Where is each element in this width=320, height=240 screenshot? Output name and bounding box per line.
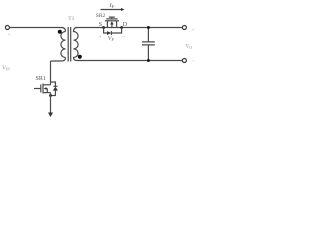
svg-text:S: S	[99, 22, 102, 28]
wire secondary bottom rail	[77, 60, 182, 62]
svg-text:SR2: SR2	[96, 13, 106, 19]
svg-text:VIN: VIN	[2, 66, 10, 72]
current arrow IF shaft	[101, 9, 122, 11]
svg-text:+: +	[192, 28, 195, 34]
MOSFET SR2 gate plate	[106, 18, 117, 20]
MOSFET SR1 body diode	[51, 82, 58, 96]
svg-text:T1: T1	[68, 16, 74, 22]
wire SR1 drain vertical	[50, 61, 52, 85]
svg-text:D: D	[123, 22, 128, 28]
svg-text:VO: VO	[186, 44, 193, 50]
MOSFET SR2 source stub	[106, 21, 108, 28]
MOSFET SR2 channel bar	[105, 20, 119, 22]
svg-text:IF: IF	[109, 2, 115, 9]
transformer T1 primary winding	[61, 32, 66, 58]
svg-text:VF: VF	[108, 36, 115, 42]
MOSFET SR2 body arrow	[111, 24, 113, 28]
output terminal Vo+	[182, 26, 186, 30]
MOSFET SR1 gate lead	[34, 88, 41, 90]
diode triangle SR2	[107, 31, 111, 35]
node cap bottom	[147, 59, 150, 62]
current arrow IF head	[121, 8, 124, 11]
transformer primary polarity dot	[58, 30, 62, 34]
wire SR1 source to ground	[50, 93, 52, 113]
MOSFET SR2 gate T-bar	[109, 16, 115, 18]
node SR2 drain D	[120, 26, 123, 29]
MOSFET SR1 body arrow	[45, 89, 47, 93]
MOSFET SR2 drain stub	[116, 21, 118, 28]
MOSFET SR1 gate plate	[40, 85, 42, 93]
svg-text:+: +	[8, 32, 11, 38]
MOSFET SR2 gate lead	[111, 17, 113, 19]
transformer secondary polarity dot	[78, 55, 82, 59]
transformer core lines	[68, 27, 71, 62]
wire input to transformer primary top	[9, 28, 65, 32]
MOSFET SR1 channel bar	[42, 84, 44, 94]
svg-text:SR1: SR1	[36, 76, 46, 82]
wire primary bottom jog	[51, 58, 66, 62]
ground	[48, 113, 53, 118]
wire secondary top rail	[77, 27, 183, 29]
node SR2 source S	[102, 26, 105, 29]
MOSFET SR2 body diode loop	[104, 28, 122, 34]
node SR1 source	[49, 94, 52, 97]
capacitor C stub top	[147, 28, 149, 42]
MOSFET SR1 drain tick	[43, 84, 51, 86]
svg-text:+: +	[99, 35, 102, 41]
diode cathode bar SR2	[110, 31, 112, 35]
input terminal +	[5, 26, 9, 30]
capacitor C stub bottom	[147, 45, 149, 60]
output terminal Vo-	[182, 59, 186, 63]
svg-text:−: −	[123, 34, 126, 40]
node cap top	[147, 26, 150, 29]
svg-text:−: −	[192, 59, 195, 65]
MOSFET SR1 source tick	[43, 92, 51, 94]
transformer T1 secondary winding	[74, 28, 79, 61]
capacitor C plates	[142, 42, 155, 45]
